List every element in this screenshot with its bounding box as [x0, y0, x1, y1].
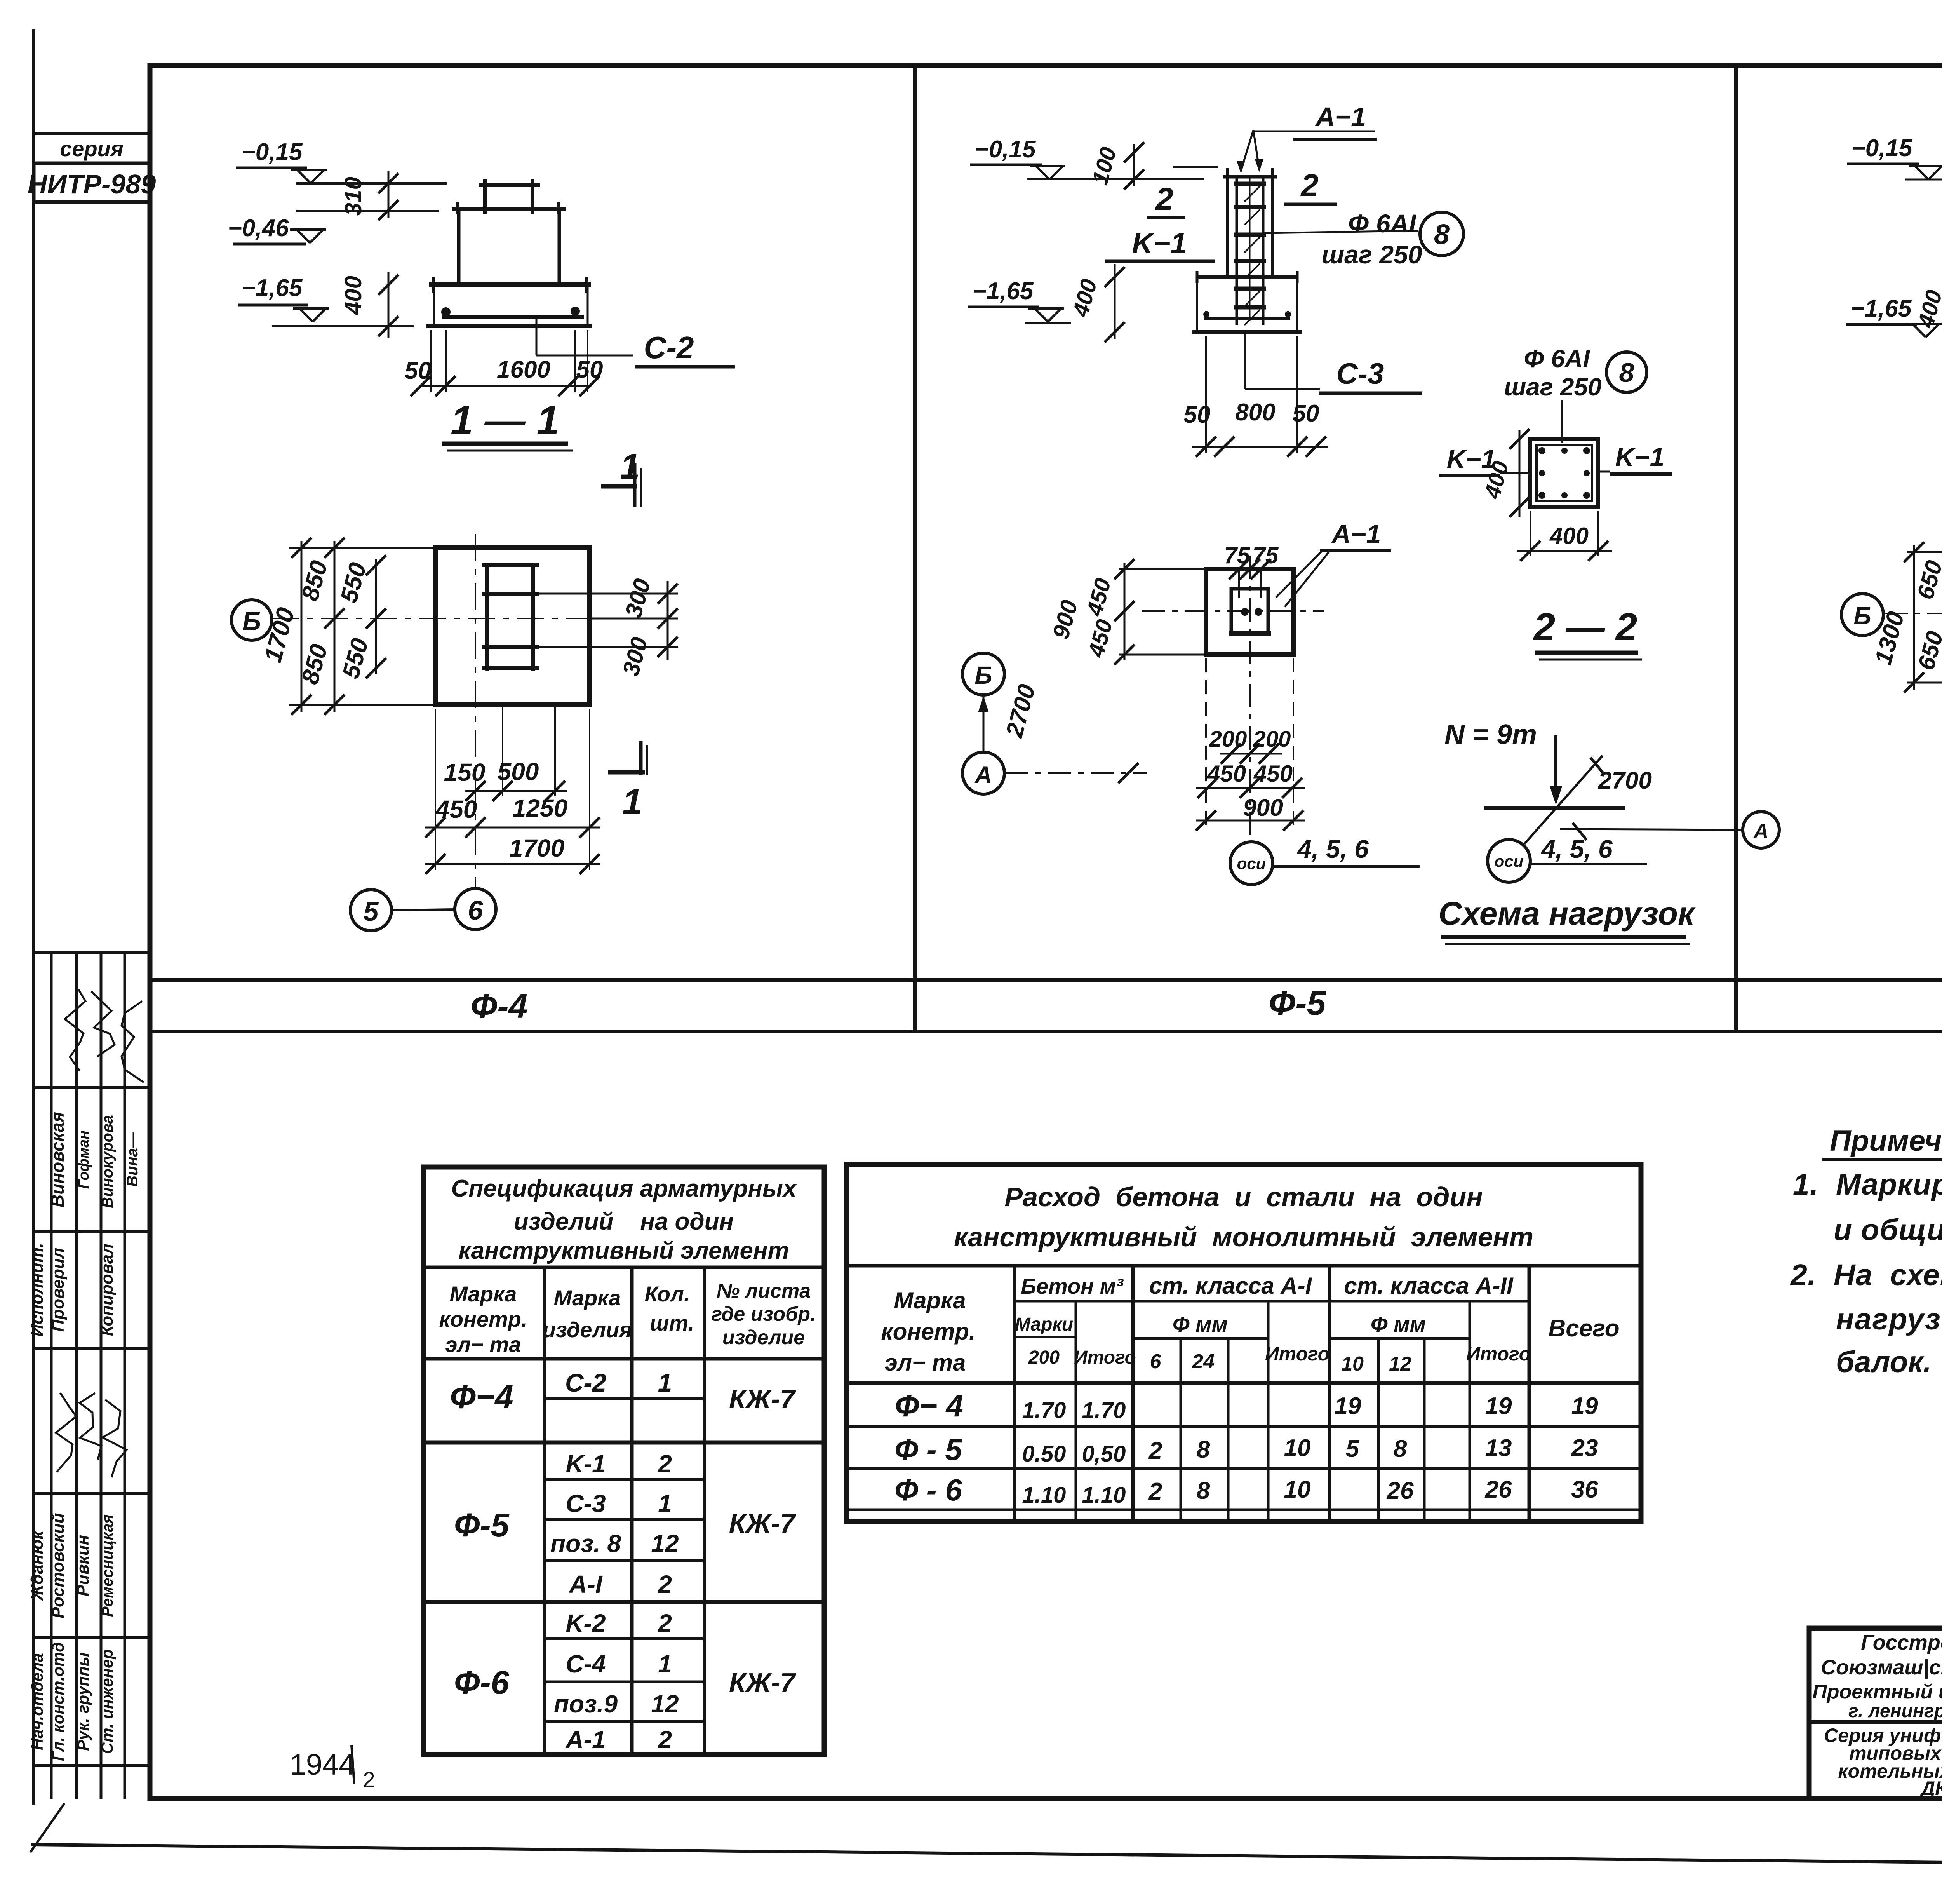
svg-text:2 — 2: 2 — 2 — [1533, 605, 1637, 649]
svg-text:24: 24 — [1192, 1350, 1215, 1373]
svg-text:200: 200 — [1209, 726, 1247, 752]
grid circle A load scheme — [1743, 812, 1779, 848]
svg-text:50: 50 — [405, 357, 432, 384]
svg-text:5: 5 — [364, 896, 379, 927]
table 1 column lines — [543, 1267, 546, 1754]
svg-text:450: 450 — [1253, 761, 1293, 787]
svg-text:1.10: 1.10 — [1022, 1482, 1066, 1508]
svg-text:Ф− 4: Ф− 4 — [895, 1388, 963, 1423]
pedestal sides — [457, 209, 461, 285]
table 1 line after Ф-4 block — [423, 1441, 824, 1445]
svg-text:−0,15: −0,15 — [1852, 135, 1913, 162]
column top bar — [479, 183, 540, 187]
signatures scribbles row 2 — [56, 1393, 127, 1477]
pedestal top bar — [452, 207, 566, 211]
svg-text:Жданюк: Жданюк — [28, 1530, 47, 1601]
svg-text:A: A — [974, 762, 992, 788]
svg-text:1: 1 — [620, 447, 640, 486]
left dim lines of plan — [289, 547, 435, 549]
svg-text:200: 200 — [1028, 1347, 1060, 1368]
footing slab Ф-4 — [429, 282, 591, 287]
dimension 50 1600 50 under footing — [430, 330, 432, 392]
level line -0,15 — [296, 182, 447, 185]
svg-text:поз.9: поз.9 — [554, 1690, 618, 1718]
svg-text:КЖ-7: КЖ-7 — [729, 1667, 796, 1698]
svg-text:Рук. группы: Рук. группы — [74, 1652, 92, 1751]
svg-text:A−1: A−1 — [1315, 102, 1366, 132]
svg-text:36: 36 — [1571, 1476, 1598, 1503]
svg-text:2: 2 — [1300, 168, 1319, 203]
svg-text:C-4: C-4 — [566, 1650, 606, 1678]
table 1 specification outer frame — [423, 1167, 824, 1754]
svg-text:0.50: 0.50 — [1022, 1441, 1066, 1467]
plan centerline horizontal (Ф-6) — [1885, 613, 1942, 614]
section 2-2 cross-section K-1 — [1530, 439, 1598, 507]
svg-text:КЖ-7: КЖ-7 — [729, 1384, 796, 1414]
svg-text:Спецификация арматурных: Спецификация арматурных — [451, 1175, 797, 1202]
svg-text:10: 10 — [1341, 1353, 1364, 1375]
axis A line load scheme — [1560, 829, 1743, 830]
label band upper line — [150, 978, 1942, 982]
svg-text:№ листа: № листа — [717, 1280, 811, 1302]
svg-text:200: 200 — [1253, 726, 1291, 752]
table 2 vertical lines — [1013, 1266, 1016, 1521]
svg-text:C-2: C-2 — [644, 330, 694, 365]
svg-text:10: 10 — [1284, 1435, 1311, 1462]
svg-text:C-3: C-3 — [566, 1489, 606, 1517]
svg-text:Всего: Всего — [1548, 1315, 1619, 1342]
svg-text:1: 1 — [658, 1368, 672, 1397]
svg-text:Расход бетона и стали на: Расход бетона и стали на один — [1004, 1182, 1483, 1212]
svg-text:Госстрой СССР: Госстрой СССР — [1861, 1631, 1942, 1654]
signature block grid — [50, 953, 53, 1799]
svg-text:ДКВР.: ДКВР. — [1919, 1777, 1942, 1799]
dimension 50 800 50 (Ф-5 footing) — [1205, 336, 1207, 453]
svg-text:Вина—: Вина— — [124, 1132, 141, 1187]
svg-text:10: 10 — [1284, 1476, 1311, 1503]
svg-text:8: 8 — [1197, 1436, 1210, 1463]
svg-text:19: 19 — [1335, 1393, 1361, 1420]
svg-text:2: 2 — [1155, 181, 1173, 217]
plan centerline horizontal axis Б — [272, 618, 647, 619]
svg-text:где изобр.: где изобр. — [711, 1303, 816, 1326]
svg-text:Ф-4: Ф-4 — [471, 987, 528, 1025]
svg-text:K−1: K−1 — [1615, 442, 1665, 472]
svg-text:12: 12 — [1389, 1353, 1411, 1375]
svg-text:нагрузки на отметке верха ф: нагрузки на отметке верха фундаментных — [1836, 1303, 1942, 1336]
svg-text:2: 2 — [658, 1609, 672, 1637]
svg-text:8: 8 — [1394, 1435, 1407, 1462]
svg-text:Итого: Итого — [1074, 1347, 1136, 1368]
svg-text:конетр.: конетр. — [881, 1319, 975, 1345]
svg-text:2: 2 — [1148, 1437, 1162, 1464]
svg-text:шаг 250: шаг 250 — [1504, 373, 1601, 401]
panel divider between Ф-5 and Ф-6 — [1734, 65, 1738, 1031]
svg-text:Ростовский: Ростовский — [49, 1513, 68, 1618]
label C-3 with leader — [1244, 333, 1246, 389]
svg-text:Исполнит.: Исполнит. — [28, 1243, 47, 1336]
grid circle Б (Ф-6) — [1841, 594, 1883, 636]
series box label — [34, 134, 150, 163]
svg-text:C-3: C-3 — [1336, 357, 1384, 390]
plan left dims 900 450 450 — [1119, 568, 1206, 570]
svg-text:−1,65: −1,65 — [973, 278, 1034, 305]
svg-text:балок.: балок. — [1836, 1345, 1932, 1379]
svg-text:конетр.: конетр. — [439, 1307, 527, 1331]
svg-text:Союзмаш|стройпроект: Союзмаш|стройпроект — [1821, 1656, 1942, 1679]
svg-text:26: 26 — [1485, 1476, 1512, 1503]
svg-text:серия: серия — [60, 136, 124, 161]
svg-text:Виновская: Виновская — [47, 1112, 68, 1207]
svg-text:изделия: изделия — [543, 1317, 632, 1342]
svg-text:A-1: A-1 — [565, 1726, 606, 1754]
svg-text:800: 800 — [1235, 399, 1275, 426]
svg-text:1. Маркировочный план фу: 1. Маркировочный план фундаментов — [1793, 1168, 1942, 1201]
svg-text:Ф-5: Ф-5 — [1269, 984, 1326, 1022]
svg-text:A−1: A−1 — [1331, 519, 1381, 549]
svg-text:500: 500 — [498, 758, 539, 786]
svg-text:2: 2 — [658, 1570, 672, 1598]
stirrup leader to position 8 — [1264, 231, 1418, 233]
svg-text:1600: 1600 — [497, 356, 550, 383]
plan centerline vertical — [475, 534, 476, 890]
svg-text:2: 2 — [658, 1726, 672, 1754]
svg-text:−0,15: −0,15 — [975, 136, 1036, 163]
svg-text:Ф-5: Ф-5 — [454, 1507, 510, 1544]
plan centerline vertical (Ф-5) — [1249, 556, 1251, 842]
svg-text:N = 9т: N = 9т — [1444, 719, 1537, 750]
svg-text:Б: Б — [974, 661, 992, 689]
svg-text:Схема нагрузок: Схема нагрузок — [1439, 895, 1696, 932]
svg-text:НИТР-989: НИТР-989 — [28, 169, 156, 199]
table 1 title underline row line — [423, 1266, 824, 1269]
svg-text:400: 400 — [340, 276, 366, 315]
beam line load scheme — [1484, 806, 1625, 810]
table 2 band line under class headers — [1015, 1300, 1529, 1303]
load arrow — [1554, 735, 1557, 800]
svg-text:оси: оси — [1495, 852, 1524, 870]
svg-text:Марки: Марки — [1015, 1314, 1073, 1335]
svg-text:ст. класса A-I: ст. класса A-I — [1149, 1273, 1312, 1299]
table 2 header bottom line — [847, 1381, 1641, 1385]
axis A line — [1005, 772, 1147, 774]
svg-text:26: 26 — [1387, 1477, 1414, 1504]
svg-text:Ф мм: Ф мм — [1173, 1312, 1228, 1336]
svg-text:1.10: 1.10 — [1082, 1482, 1126, 1508]
svg-text:изделие: изделие — [722, 1326, 805, 1349]
grid circle Б — [231, 600, 272, 640]
svg-text:K-1: K-1 — [566, 1450, 606, 1478]
svg-text:канструктивный монолитный эл: канструктивный монолитный элемент — [954, 1222, 1533, 1252]
grid circle A (Ф-5) — [962, 752, 1004, 794]
svg-text:K-2: K-2 — [566, 1609, 606, 1637]
table 2 line after Ф-6 — [847, 1509, 1641, 1511]
plan outline Ф-5 900x900 — [1206, 569, 1293, 655]
level line -0,46 — [296, 210, 439, 212]
level line -1,65 — [272, 325, 414, 327]
svg-text:и общие примечания см. лис: и общие примечания см. лист КЖ-3 — [1834, 1213, 1942, 1247]
svg-text:Бетон м³: Бетон м³ — [1021, 1274, 1124, 1298]
column stems — [483, 179, 487, 214]
plan outline Ф-4 1700x1700 — [435, 548, 590, 705]
label band lower line — [150, 1030, 1942, 1033]
svg-text:8: 8 — [1434, 219, 1450, 250]
svg-text:Гл. конст.отд: Гл. конст.отд — [49, 1642, 67, 1761]
osi circle 4,5,6 (plan) — [1230, 842, 1273, 885]
series box НИТР-989 — [34, 163, 150, 202]
svg-text:Итого: Итого — [1265, 1343, 1329, 1365]
svg-text:4, 5, 6: 4, 5, 6 — [1540, 834, 1613, 863]
svg-text:Нач.отдела: Нач.отдела — [28, 1653, 46, 1750]
svg-text:13: 13 — [1485, 1435, 1512, 1462]
table 1 header bottom line — [423, 1357, 824, 1361]
title block outer frame — [1809, 1628, 1942, 1799]
svg-text:Проектный институт№1: Проектный институт№1 — [1812, 1681, 1942, 1703]
svg-text:шаг 250: шаг 250 — [1321, 240, 1422, 269]
svg-text:Ст. инженер: Ст. инженер — [98, 1649, 116, 1754]
svg-text:2. На схемах нагрузок да: 2. На схемах нагрузок даны нормативные — [1790, 1258, 1942, 1292]
svg-text:A-I: A-I — [568, 1570, 603, 1598]
panel divider between Ф-4 and Ф-5 — [913, 65, 917, 1031]
svg-text:19: 19 — [1485, 1393, 1512, 1420]
svg-text:400: 400 — [1549, 523, 1589, 549]
svg-text:−1,65: −1,65 — [1851, 295, 1912, 322]
svg-text:Кол.: Кол. — [645, 1282, 690, 1306]
svg-text:Ф-6: Ф-6 — [454, 1664, 510, 1701]
svg-text:5: 5 — [1346, 1435, 1360, 1462]
svg-text:6: 6 — [1150, 1350, 1162, 1373]
svg-text:450: 450 — [435, 795, 477, 823]
svg-text:12: 12 — [651, 1690, 679, 1718]
svg-text:−0,46: −0,46 — [228, 215, 289, 242]
svg-text:75: 75 — [1224, 542, 1251, 568]
svg-text:8: 8 — [1197, 1477, 1210, 1504]
svg-text:эл− та: эл− та — [885, 1350, 966, 1376]
plan rebar mesh C-2 — [485, 563, 489, 671]
column K-1 elevation — [1241, 130, 1253, 171]
svg-text:2: 2 — [363, 1767, 375, 1792]
svg-text:канструктивный элемент: канструктивный элемент — [458, 1237, 789, 1264]
svg-text:1 — 1: 1 — 1 — [451, 398, 559, 443]
svg-text:Проверил: Проверил — [49, 1248, 68, 1332]
signatures scribbles row 1 — [65, 989, 144, 1082]
corner slash mark bottom left — [30, 1803, 64, 1852]
wire between circles 5 and 6 — [392, 909, 455, 910]
svg-text:Итого: Итого — [1466, 1343, 1531, 1365]
svg-text:1700: 1700 — [509, 834, 564, 862]
svg-text:C-2: C-2 — [565, 1368, 607, 1397]
sheet outer left edge line — [32, 29, 35, 1805]
svg-text:ст. класса A-II: ст. класса A-II — [1344, 1273, 1514, 1299]
svg-text:Φ 6AI: Φ 6AI — [1524, 345, 1590, 373]
svg-text:Ремесницкая: Ремесницкая — [99, 1514, 116, 1617]
grid circle 6 — [455, 888, 496, 930]
table 1 line after Ф-5 block — [423, 1600, 824, 1604]
svg-text:1: 1 — [622, 782, 642, 822]
svg-text:2700: 2700 — [1598, 767, 1652, 794]
section cut mark 1 lower — [608, 770, 645, 775]
plan pedestal 450x450 with bars — [1231, 589, 1268, 633]
svg-text:Ривкин: Ривкин — [73, 1535, 92, 1597]
svg-text:1.70: 1.70 — [1082, 1398, 1126, 1423]
svg-text:1250: 1250 — [512, 794, 567, 822]
svg-text:2: 2 — [1148, 1478, 1162, 1505]
svg-text:Примечания: Примечания — [1830, 1124, 1942, 1157]
axis diagonal line — [1524, 756, 1603, 844]
label C-2 with leader — [536, 318, 538, 355]
plan centerline horizontal (Ф-5) — [1142, 610, 1324, 612]
svg-text:−0,15: −0,15 — [242, 139, 303, 165]
svg-text:эл− та: эл− та — [445, 1332, 521, 1357]
svg-text:Копировал: Копировал — [97, 1244, 117, 1336]
svg-text:−1,65: −1,65 — [242, 275, 303, 301]
svg-text:оси: оси — [1237, 854, 1266, 873]
svg-text:1: 1 — [658, 1489, 672, 1517]
svg-text:Φ 6AI: Φ 6AI — [1348, 209, 1416, 238]
svg-text:Ф−4: Ф−4 — [450, 1379, 513, 1416]
svg-text:150: 150 — [444, 758, 486, 786]
osi circle load scheme — [1488, 840, 1530, 882]
svg-text:1944: 1944 — [289, 1748, 355, 1781]
svg-text:12: 12 — [651, 1529, 679, 1557]
plan bottom dim 150 500 — [502, 705, 503, 796]
svg-text:поз. 8: поз. 8 — [550, 1529, 621, 1557]
svg-text:900: 900 — [1243, 794, 1283, 821]
svg-text:Винокурова: Винокурова — [99, 1115, 116, 1208]
table 2 consumption outer frame — [847, 1164, 1641, 1521]
svg-text:Марка: Марка — [450, 1282, 517, 1306]
svg-text:4, 5, 6: 4, 5, 6 — [1296, 834, 1369, 863]
svg-text:г. ленинград 1970 г.: г. ленинград 1970 г. — [1848, 1701, 1942, 1721]
title block left divider line — [1809, 1720, 1942, 1724]
table 2 title line — [847, 1264, 1641, 1268]
grid circle Б (Ф-5) — [962, 653, 1004, 695]
svg-text:Ф - 5: Ф - 5 — [894, 1432, 962, 1467]
svg-text:2: 2 — [658, 1450, 672, 1478]
svg-text:50: 50 — [1184, 401, 1211, 428]
svg-text:Гофман: Гофман — [76, 1131, 92, 1189]
svg-text:1.70: 1.70 — [1022, 1398, 1066, 1423]
svg-text:изделий на один: изделий на один — [514, 1208, 734, 1235]
svg-text:Ф мм: Ф мм — [1371, 1312, 1426, 1336]
svg-text:шт.: шт. — [650, 1311, 694, 1335]
svg-text:19: 19 — [1571, 1393, 1598, 1420]
svg-text:A: A — [1753, 820, 1769, 843]
level line to column — [1027, 178, 1204, 180]
axis arrow Б to A — [983, 695, 985, 752]
svg-text:КЖ-7: КЖ-7 — [729, 1508, 796, 1538]
plan left dims 1300 650 650 — [1907, 551, 1942, 553]
svg-text:50: 50 — [1293, 400, 1319, 427]
svg-text:Марка: Марка — [894, 1287, 966, 1313]
svg-text:1: 1 — [658, 1650, 672, 1678]
right dim 300 300 — [533, 593, 678, 595]
rebar C-2 in footing — [442, 315, 584, 319]
svg-text:Б: Б — [1853, 602, 1871, 630]
svg-text:0,50: 0,50 — [1082, 1441, 1126, 1467]
svg-text:K−1: K−1 — [1132, 227, 1187, 260]
svg-text:8: 8 — [1619, 357, 1634, 388]
grid circle 5 — [350, 890, 392, 931]
sheet bottom paper edge line — [31, 1845, 1942, 1869]
svg-text:Б: Б — [242, 606, 261, 636]
svg-text:Ф - 6: Ф - 6 — [894, 1473, 962, 1507]
svg-text:50: 50 — [576, 356, 603, 383]
svg-text:6: 6 — [468, 895, 484, 925]
svg-text:Марка: Марка — [554, 1286, 621, 1310]
svg-text:23: 23 — [1571, 1435, 1598, 1462]
